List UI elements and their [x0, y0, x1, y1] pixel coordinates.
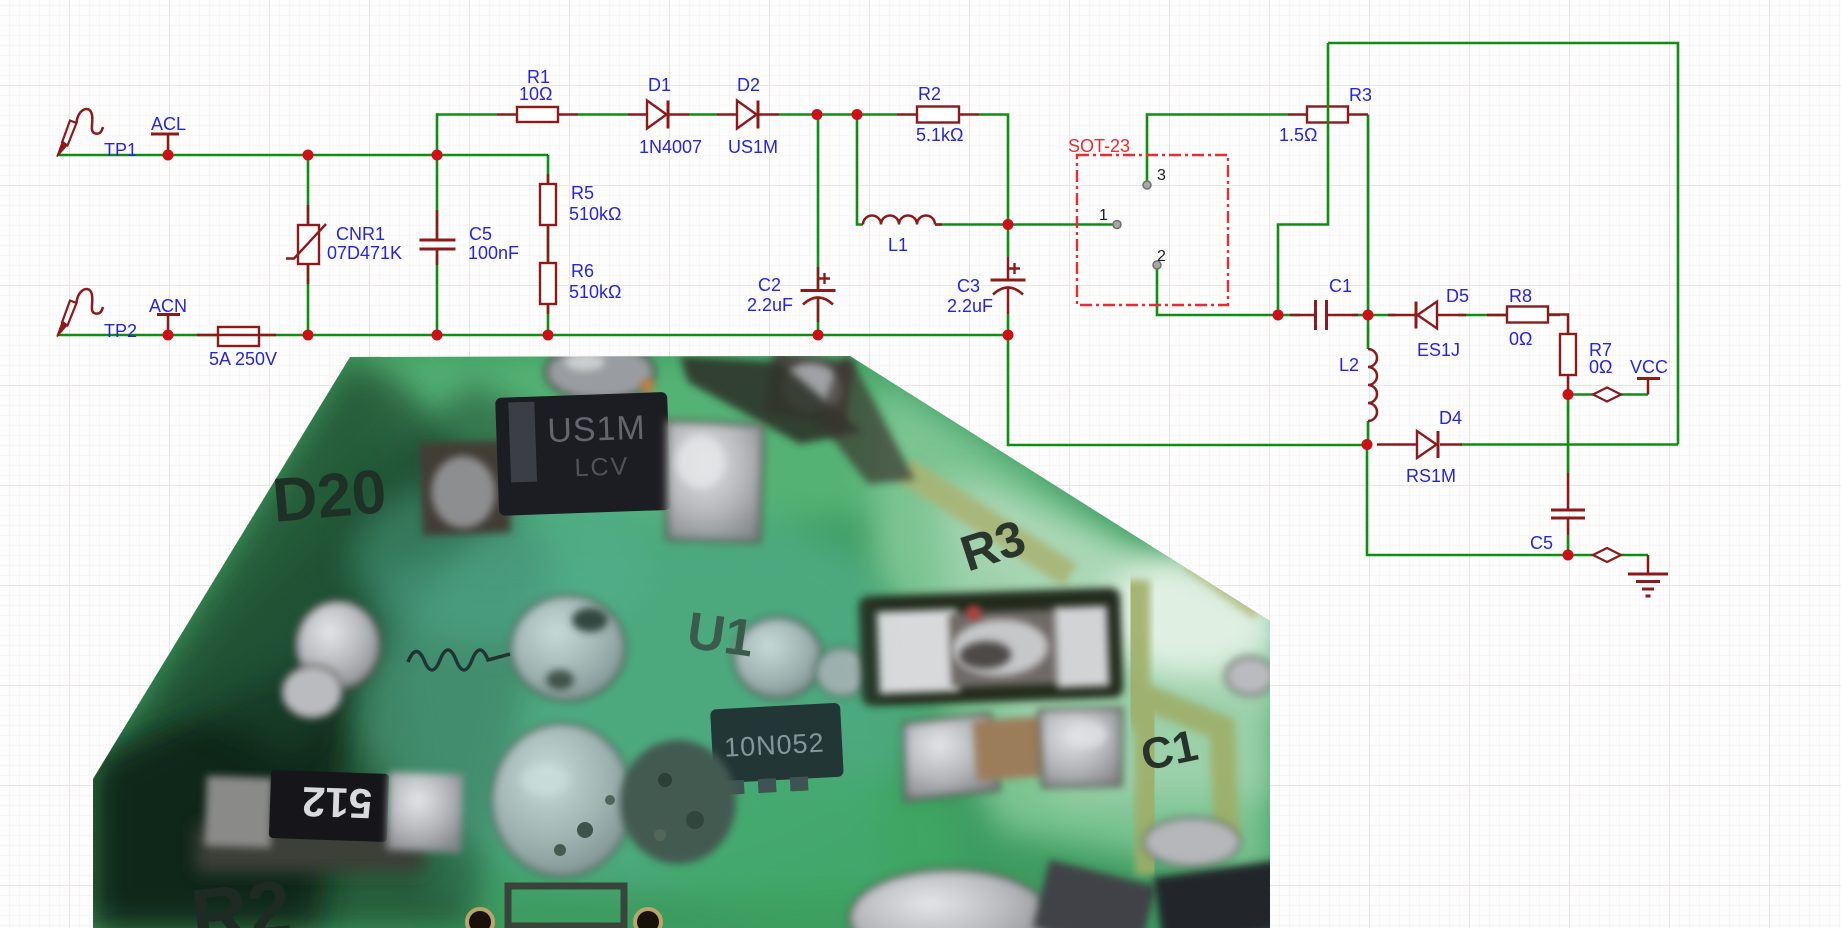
khaki traces — [905, 470, 1260, 875]
middle solder blobs — [296, 601, 380, 689]
svg-text:D5: D5 — [1446, 286, 1469, 306]
svg-text:D4: D4 — [1439, 408, 1462, 428]
wire D5 row — [1368, 314, 1560, 317]
svg-text:C5: C5 — [1530, 533, 1553, 553]
svg-text:512: 512 — [301, 778, 373, 827]
capacitor C5 100nF — [420, 210, 456, 265]
svg-text:510kΩ: 510kΩ — [569, 204, 622, 224]
L1 right pin — [935, 223, 942, 226]
junction node L1/C3/pin1 — [1003, 219, 1014, 230]
junction CNR1 bottom — [303, 330, 314, 341]
PCB photo inset — [93, 344, 1302, 928]
junction at ACL pin — [163, 150, 174, 161]
wire C1 left stub — [1278, 314, 1300, 317]
wire L1 to pin1 — [935, 223, 1117, 226]
svg-text:0Ω: 0Ω — [1589, 357, 1612, 377]
svg-text:07D471K: 07D471K — [327, 243, 402, 263]
svg-text:2.2uF: 2.2uF — [947, 296, 993, 316]
wire ACN rail — [58, 334, 1008, 337]
capacitor C3 2.2uF polar — [991, 257, 1026, 314]
VCC port — [1637, 379, 1660, 395]
brown capacitor — [900, 705, 1127, 800]
wire D4 row to right edge — [1460, 443, 1678, 446]
junction C5 top — [432, 150, 443, 161]
svg-text:LCV: LCV — [574, 452, 630, 482]
svg-text:L1: L1 — [888, 235, 908, 255]
svg-text:R8: R8 — [1509, 286, 1532, 306]
junction C1 left — [1273, 310, 1284, 321]
svg-text:CNR1: CNR1 — [336, 224, 385, 244]
wire D4 junction to C5 row — [1367, 445, 1568, 556]
svg-text:VCC: VCC — [1630, 357, 1668, 377]
capacitor C5 bottom — [1551, 473, 1585, 535]
junction L1 top — [852, 109, 863, 120]
resistor R3 — [1288, 107, 1368, 123]
silkscreen rectangle — [508, 886, 624, 926]
wire R2 to right corner — [979, 115, 1008, 258]
fuse F1 5A 250V — [197, 327, 276, 346]
svg-text:1N4007: 1N4007 — [639, 137, 702, 157]
probe TP2 — [57, 289, 103, 336]
inductor L1 — [863, 216, 935, 225]
inductor L2 — [1368, 349, 1377, 421]
junction C5 bottom — [432, 330, 443, 341]
net flag diamond at ground row — [1593, 548, 1621, 562]
charred solder — [620, 740, 736, 864]
resistor R7 — [1560, 334, 1576, 395]
svg-text:C3: C3 — [957, 276, 980, 296]
diode D4 — [1377, 431, 1462, 458]
PCB R3 resistor — [858, 587, 1124, 706]
svg-text:US1M: US1M — [728, 137, 778, 157]
pin 2 dot — [1153, 261, 1161, 269]
svg-text:C2: C2 — [758, 275, 781, 295]
junction C3 bottom — [1003, 330, 1014, 341]
wire CNR1 branch — [307, 155, 310, 335]
wire L1 branch — [857, 115, 863, 225]
net pin ACL — [151, 134, 179, 155]
junction CNR1 top — [303, 150, 314, 161]
svg-text:0Ω: 0Ω — [1509, 329, 1532, 349]
svg-text:L2: L2 — [1339, 355, 1359, 375]
wire ACL rail — [58, 154, 548, 157]
wire C5 to ground row — [1568, 535, 1648, 555]
wire D1-D2 — [689, 113, 717, 116]
top right pad + blob — [764, 350, 855, 426]
diode D1 — [628, 101, 689, 129]
wire L2 bottom — [1367, 421, 1370, 445]
wire L2 top — [1367, 115, 1370, 350]
svg-text:RS1M: RS1M — [1406, 466, 1456, 486]
US1M diode chip — [418, 389, 767, 554]
wire R7 junction row to VCC — [1568, 393, 1648, 396]
wire pin3 riser — [1147, 115, 1288, 186]
net pin ACN — [157, 315, 180, 336]
mounting holes — [467, 909, 493, 928]
junction C1 right — [1363, 310, 1374, 321]
top edge solder blob — [546, 344, 655, 400]
svg-text:ES1J: ES1J — [1417, 340, 1460, 360]
pin 3 dot — [1143, 181, 1151, 189]
resistor R2 — [897, 107, 979, 123]
capacitor C1 — [1290, 300, 1358, 330]
wire R1-D1 — [578, 113, 628, 116]
diode D2 — [717, 101, 779, 129]
svg-text:R6: R6 — [571, 261, 594, 281]
svg-text:SOT-23: SOT-23 — [1068, 136, 1130, 156]
wire C5 branch bottom — [436, 249, 439, 335]
junction R6 bottom — [543, 330, 554, 341]
net flag diamond at VCC row — [1593, 388, 1621, 402]
svg-text:3: 3 — [1157, 167, 1166, 184]
wire D2-R2 — [779, 113, 897, 116]
diode D5 — [1388, 302, 1466, 329]
junction R7 bottom — [1563, 389, 1574, 400]
resistor R1 — [497, 107, 578, 122]
wire R7 junction down to C5 — [1567, 395, 1570, 474]
resistor R6 — [540, 225, 556, 314]
10N052 transistor — [710, 703, 844, 796]
jumper squiggle — [408, 650, 510, 670]
wire R5-R6 branch — [547, 155, 550, 335]
svg-text:TP2: TP2 — [104, 321, 137, 341]
svg-text:5.1kΩ: 5.1kΩ — [916, 125, 963, 145]
wire C2 branch bottom — [817, 298, 820, 335]
512 resistor chip — [196, 824, 424, 872]
svg-text:R5: R5 — [571, 183, 594, 203]
pin 1 dot — [1113, 221, 1121, 229]
svg-text:C1: C1 — [1329, 276, 1352, 296]
svg-text:R3: R3 — [1349, 85, 1372, 105]
SOT-23 dashed outline — [1077, 155, 1228, 305]
svg-text:10Ω: 10Ω — [519, 84, 552, 104]
wire C5 branch top — [436, 155, 439, 240]
svg-text:2.2uF: 2.2uF — [747, 295, 793, 315]
svg-text:1.5Ω: 1.5Ω — [1279, 125, 1317, 145]
svg-text:D1: D1 — [648, 75, 671, 95]
svg-text:2: 2 — [1157, 248, 1166, 265]
svg-text:100nF: 100nF — [468, 243, 519, 263]
wire right edge loop — [1328, 43, 1678, 445]
wire C2 branch top — [817, 115, 820, 291]
capacitor C2 2.2uF polar — [801, 267, 836, 322]
wire pin2 to C1 — [1157, 265, 1278, 315]
svg-text:C5: C5 — [469, 224, 492, 244]
probe TP1 — [57, 109, 103, 156]
junction C2 top — [812, 109, 823, 120]
svg-text:ACL: ACL — [151, 114, 186, 134]
junction C2 bottom — [813, 330, 824, 341]
resistor R8 — [1487, 307, 1568, 335]
svg-text:1: 1 — [1099, 207, 1108, 224]
wire C3 bottom to jog — [1008, 314, 1367, 445]
svg-text:US1M: US1M — [547, 409, 647, 450]
svg-text:TP1: TP1 — [104, 140, 137, 160]
varistor CNR1 — [286, 205, 326, 284]
junction at ACN pin — [163, 330, 174, 341]
svg-text:ACN: ACN — [149, 296, 187, 316]
svg-text:D20: D20 — [270, 457, 389, 536]
wire riser to R1 row — [437, 115, 497, 156]
junction C5 ground node — [1563, 550, 1574, 561]
big bottom solder blob — [492, 724, 632, 876]
ground symbol — [1628, 555, 1668, 596]
svg-text:D2: D2 — [737, 75, 760, 95]
svg-text:510kΩ: 510kΩ — [569, 282, 622, 302]
bottom right solder masses — [850, 870, 1050, 928]
resistor R5 — [540, 174, 556, 225]
svg-text:R2: R2 — [918, 84, 941, 104]
svg-text:R2: R2 — [187, 863, 295, 928]
wire C1 right stub — [1352, 314, 1368, 317]
wire crossing R3 — [1278, 43, 1328, 315]
svg-text:5A 250V: 5A 250V — [209, 349, 277, 369]
junction D4 anode — [1362, 439, 1373, 450]
